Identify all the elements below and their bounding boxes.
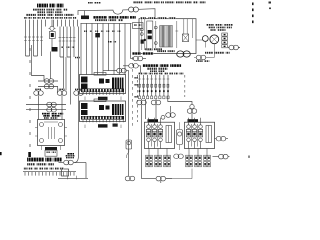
title block line 4: [26, 14, 36, 16]
tiny labels on center wires: [84, 31, 87, 32]
oval labels: [35, 89, 41, 91]
secondary wire: [176, 21, 178, 48]
bottom ticks assembly: [67, 176, 76, 180]
mid-right header line3: [150, 70, 157, 72]
wire with contacts: [155, 21, 157, 48]
control board U2 outline: [80, 101, 126, 122]
tiny side notes: [135, 77, 139, 79]
bottom title line2: [27, 163, 35, 165]
oval bottom-left assembly: [59, 162, 64, 164]
small relay blob on wire: [95, 33, 100, 37]
bank M2 terminal clusters: [186, 155, 189, 160]
relay R1 box: [38, 120, 65, 146]
dashed separator center: [132, 57, 134, 128]
oval above bank2: [187, 109, 197, 114]
board U2 pin band: [81, 116, 124, 120]
ovals row mid-left: [34, 91, 44, 96]
fuse holder body: [49, 32, 55, 39]
tiny labels group B: [61, 47, 64, 48]
transformer T1 windings: [160, 26, 172, 48]
bottom oval center: [156, 176, 166, 181]
relay label text block: [42, 113, 50, 115]
L1 continues to transformer box: [139, 9, 156, 19]
title block line 2: [33, 9, 45, 11]
relay coil bars: [49, 127, 55, 139]
oval below mid-right field 1: [141, 99, 143, 101]
right rail sensor component: [126, 140, 132, 149]
elbow wire to bank2: [168, 96, 192, 104]
board U1 pin band: [81, 89, 124, 93]
mid-right header bold line1: [143, 64, 159, 67]
connector oval on L1: [129, 7, 139, 12]
left wire group B verticals: [59, 27, 61, 58]
title block line 3: [37, 11, 45, 13]
dashed separator top right: [252, 3, 254, 25]
wire from fuse holder down: [51, 20, 53, 27]
fuse holder circle: [50, 26, 54, 30]
board U2 sub box below: [98, 124, 108, 127]
feed from P1 down: [57, 87, 59, 94]
transformer caps: [160, 26, 173, 48]
small box bottom-left assembly: [62, 169, 69, 176]
connector oval right: [228, 47, 240, 49]
title block line 1: [37, 4, 48, 8]
long wires B continuing down: [63, 57, 65, 91]
top tick row under labels: [26, 20, 78, 27]
left boundary dashes: [29, 48, 31, 150]
component box with dark cap: [45, 147, 57, 150]
contactor bank M2 label bar: [188, 119, 199, 122]
relay K1 blob: [84, 11, 86, 16]
wires below relay: [41, 146, 43, 151]
bank M1 terminal clusters: [146, 155, 149, 160]
bottom rule: [23, 171, 76, 173]
relay side pins: [35, 128, 67, 137]
connector oval pair C (x112 wire): [103, 70, 117, 72]
board U1 left dark blocks: [81, 77, 88, 83]
labels on box top: [140, 17, 146, 19]
bank M1 pole 2: [153, 125, 157, 129]
big connector oval at box corner: [177, 51, 191, 57]
overload component between banks: [177, 130, 183, 145]
board U1 right block: [112, 78, 124, 89]
board interconnect wires: [85, 97, 121, 101]
wire elbow to plug P1: [32, 45, 45, 81]
switch symbols on mid-right wires: [138, 78, 141, 80]
faint mark right: [248, 156, 250, 158]
plug P1 line 2: [38, 86, 58, 88]
extra wire into bank1: [145, 99, 147, 119]
relay inner top marks: [44, 121, 58, 123]
board U1 top notch: [94, 73, 106, 76]
U joins at bottom of group A: [26, 55, 38, 57]
center header text line2: [95, 19, 107, 21]
center wire field verticals: [80, 23, 82, 74]
oval above bank1: [170, 106, 172, 113]
bottom ticks: [25, 172, 74, 176]
tiny note mid field: [108, 41, 112, 43]
mid-right field bottom terminals: [138, 96, 140, 99]
bank M1 pole 1: [147, 125, 151, 129]
bottom title bold line: [27, 158, 44, 162]
wire from box to motor cluster: [196, 39, 202, 41]
connector oval D: [123, 65, 129, 67]
mid-right label row: [139, 73, 143, 75]
bank M2 pole 1: [187, 125, 191, 129]
contactor bank M1 label bar: [148, 119, 159, 122]
label on wire x78.5: [75, 57, 80, 59]
board U2 top notch: [94, 99, 106, 102]
U join group B: [60, 56, 71, 58]
contact ticks group B: [59, 37, 62, 39]
board U2 pins: [83, 120, 123, 123]
wires into ovals: [38, 95, 40, 119]
wire bend into bottom-left assembly: [75, 155, 79, 163]
bold arrow mark left edge: [28, 152, 31, 157]
power line L1 with loop: [78, 10, 129, 15]
fuse body dark mark: [141, 40, 144, 44]
bank M1 pole 3: [159, 125, 163, 129]
left margin tick: [0, 152, 2, 155]
extra sub box below U2: [113, 124, 118, 127]
center header text bold: [93, 16, 107, 19]
connector oval E on y58.5 run: [131, 58, 134, 60]
oval below mid-right field 2: [155, 99, 157, 101]
small relay blob K2: [52, 47, 58, 52]
drop wire right: [58, 163, 88, 179]
breaker block: [147, 21, 153, 50]
small label right of component: [67, 153, 74, 155]
plug P1 line 1: [38, 80, 58, 82]
oval below motor: [194, 57, 196, 59]
bank M1 separators: [152, 124, 158, 147]
terminal strip stack: [222, 33, 228, 36]
bank2 bottom wire: [166, 169, 192, 179]
bank M2 aux block: [206, 126, 212, 143]
oval at bottom of right rail: [125, 176, 135, 181]
stubs below board U2: [85, 125, 121, 128]
field wiring label bold: [132, 52, 141, 54]
board U2 right block: [112, 104, 124, 115]
small circle node: [190, 104, 194, 108]
bank M2 separators: [192, 124, 198, 147]
board U2 mid blobs: [99, 105, 104, 110]
bank M2 pole 2: [193, 125, 197, 129]
pilot lamp circle: [202, 36, 208, 42]
left wire group A verticals: [25, 27, 27, 57]
board U1 sub box below: [98, 97, 108, 100]
center bus line: [81, 22, 132, 24]
oval below-right of bank2: [213, 156, 230, 158]
dashed enclosure mid-right: [136, 75, 138, 122]
oval between banks below: [174, 154, 184, 159]
right inner wire: [192, 19, 194, 38]
circuit breaker box CB1: [133, 23, 144, 29]
contact tick marks group A: [24, 36, 27, 38]
long wire x78.5: [78, 27, 80, 91]
contactor bank M2 box: [185, 122, 215, 148]
relay internal contacts: [40, 123, 44, 127]
corner dots top right: [269, 2, 272, 4]
label under oval: [196, 60, 203, 62]
wire label row (left bank): [24, 17, 27, 19]
fuse wire F1: [141, 19, 143, 50]
mid-right header line2: [147, 68, 157, 70]
box bottom labels: [145, 48, 152, 50]
fuse wire F2: [144, 19, 146, 50]
right cluster note rows: [206, 24, 214, 26]
bottom label row: [24, 168, 28, 170]
left rail down from oval 1: [141, 105, 143, 179]
bottom left rail of banks: [142, 178, 156, 180]
board U1 pins: [83, 92, 123, 95]
oval right of bank2: [215, 138, 229, 140]
horizontal plug lines left: [26, 104, 66, 106]
bank M1 aux block: [166, 126, 172, 143]
top right note text row: [133, 1, 143, 3]
right cluster bottom label: [205, 52, 213, 54]
tiny note text above L1: [88, 2, 93, 4]
board U2 left dark blocks: [81, 103, 88, 109]
blower motor circle with X: [210, 35, 219, 44]
board U1 mid blobs: [99, 79, 104, 84]
relay coil w/ X: [183, 19, 185, 34]
motor feed wires: [205, 41, 214, 57]
mid-right wire field: [139, 75, 141, 96]
contactor bank M1 box: [145, 122, 175, 148]
transformer section box: [139, 19, 196, 54]
small circle left of oval: [161, 115, 165, 119]
bank M2 pole 3: [199, 125, 203, 129]
control board U1 outline: [80, 75, 126, 94]
